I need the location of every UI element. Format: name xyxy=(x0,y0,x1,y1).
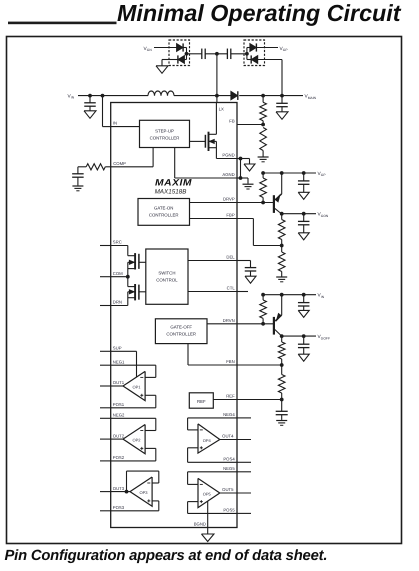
svg-text:POS3: POS3 xyxy=(113,505,125,510)
svg-text:CONTROLLER: CONTROLLER xyxy=(150,136,180,141)
wire SUP internal xyxy=(111,350,137,352)
wire PGND internal xyxy=(216,158,237,160)
wire FBN internal xyxy=(187,344,189,365)
pin DRN stub xyxy=(100,305,111,307)
wire AGND internal xyxy=(174,148,176,179)
wire BGND xyxy=(207,502,209,535)
resistor R-FBP-bottom xyxy=(281,246,283,253)
wire DRVP internal xyxy=(190,202,238,204)
svg-text:MAXIM: MAXIM xyxy=(155,177,192,187)
svg-text:BGND: BGND xyxy=(194,522,206,527)
junction VIN cap xyxy=(88,94,92,98)
junction COM xyxy=(126,275,130,279)
svg-text:IN: IN xyxy=(113,121,117,126)
junction Q1 collector xyxy=(280,212,284,216)
block gate-off controller xyxy=(155,319,207,344)
svg-text:OUT5: OUT5 xyxy=(222,487,234,492)
svg-text:OP4: OP4 xyxy=(203,438,212,443)
junction REF xyxy=(280,398,284,402)
wire POS3 hook xyxy=(111,510,159,512)
svg-text:SWITCH: SWITCH xyxy=(158,271,175,276)
pin POS2 stub xyxy=(100,460,111,462)
wire OUT1 xyxy=(111,385,123,387)
diode D2b xyxy=(178,55,185,63)
diode D3a xyxy=(247,47,250,49)
pin POS3 stub xyxy=(100,510,111,512)
resistor R-DRVP xyxy=(262,173,264,178)
wire NEG2 hook xyxy=(111,417,156,419)
pin POS5 stub xyxy=(237,512,251,514)
dashed box D3 dual diode xyxy=(244,40,265,66)
ground VMAIN cap xyxy=(276,112,288,120)
transistor N3 switch MOSFET xyxy=(127,277,129,287)
junction pump2 xyxy=(245,52,249,56)
diode D3b xyxy=(247,59,251,61)
pin OUT2 stub xyxy=(100,438,111,440)
wire VMAIN rail xyxy=(263,95,303,97)
wire OUT2 xyxy=(111,438,123,440)
junction pump LX tap xyxy=(215,52,219,56)
pin NEG2 stub xyxy=(100,417,111,419)
svg-text:OP5: OP5 xyxy=(203,491,212,496)
svg-text:OUT1: OUT1 xyxy=(113,380,125,385)
block step-up controller xyxy=(140,120,190,147)
svg-text:AGND: AGND xyxy=(222,172,234,177)
wire VGOFF node xyxy=(282,335,316,337)
svg-text:OP3: OP3 xyxy=(139,490,148,495)
svg-text:GP: GP xyxy=(321,173,327,177)
wire NEG5 hook xyxy=(188,471,237,473)
junction VGON cap xyxy=(302,212,306,216)
junction FBP xyxy=(280,244,284,248)
junction FB divider top xyxy=(261,94,265,98)
svg-text:GN: GN xyxy=(147,48,153,52)
IC U1 MAX1518B outline xyxy=(111,103,237,528)
capacitor C-pump1 xyxy=(201,49,203,60)
svg-text:CONTROL: CONTROL xyxy=(156,278,178,283)
capacitor C-VIN2 xyxy=(303,295,305,303)
svg-text:CONTROLLER: CONTROLLER xyxy=(149,212,179,217)
svg-text:GATE-ON: GATE-ON xyxy=(154,205,173,210)
svg-text:POS1: POS1 xyxy=(113,402,125,407)
ground FB divider xyxy=(258,156,269,158)
pin OUT1 stub xyxy=(100,385,111,387)
transistor N1 step-up MOSFET xyxy=(204,135,206,148)
wire CTL internal xyxy=(188,291,237,293)
wire DRN to FET xyxy=(111,305,128,307)
pin NEG5 stub xyxy=(237,471,251,473)
junction VIN cap xyxy=(302,293,306,297)
wire OP3 feedback loop xyxy=(126,471,128,492)
svg-text:LX: LX xyxy=(219,106,224,111)
wire D3b to VMAIN xyxy=(258,59,282,61)
wire FB pin xyxy=(237,124,263,126)
block gate-on controller xyxy=(138,199,190,226)
svg-text:GOFF: GOFF xyxy=(321,336,330,340)
wire PGND to AGND xyxy=(240,159,242,179)
capacitor C-COMP xyxy=(77,167,79,174)
capacitor C-REF xyxy=(281,400,283,412)
diode D2a xyxy=(177,43,184,51)
svg-text:NEG4: NEG4 xyxy=(223,412,235,417)
wire CTL stub xyxy=(237,291,248,293)
ground BGND xyxy=(201,534,214,542)
wire REF external xyxy=(237,399,282,401)
wire REF internal xyxy=(213,399,237,401)
svg-text:OUT2: OUT2 xyxy=(113,433,125,438)
svg-text:GP: GP xyxy=(283,48,289,52)
svg-text:PGND: PGND xyxy=(222,153,234,158)
wire inductor to diode xyxy=(174,95,231,97)
wire LX stub into IC xyxy=(216,96,218,103)
junction VIN resistor xyxy=(261,293,265,297)
wire VGN to pump xyxy=(154,47,177,49)
ground FBP divider xyxy=(276,276,287,278)
wire OUT3 xyxy=(111,491,130,493)
svg-text:NEG2: NEG2 xyxy=(113,413,125,418)
capacitor C-DEL xyxy=(250,261,252,268)
junction PGND xyxy=(239,157,243,161)
junction VGOFF cap xyxy=(302,334,306,338)
svg-text:FBN: FBN xyxy=(226,359,235,364)
ground COMP xyxy=(72,185,83,187)
wire COM to FETs xyxy=(111,276,128,278)
wire VIN to inductor xyxy=(78,95,148,97)
svg-text:POS5: POS5 xyxy=(223,508,235,513)
svg-text:MAX1518B: MAX1518B xyxy=(155,188,187,195)
op-amp OP3 xyxy=(130,477,152,506)
junction VGP resistor xyxy=(261,171,265,175)
junction FBN xyxy=(280,363,284,367)
svg-text:COM: COM xyxy=(113,271,123,276)
svg-text:NEG5: NEG5 xyxy=(223,466,235,471)
transistor Q1 PNP xyxy=(273,195,275,213)
wire FBP route xyxy=(237,218,253,220)
svg-text:POS2: POS2 xyxy=(113,455,125,460)
wire cap to pump2 xyxy=(231,53,247,55)
svg-text:SUP: SUP xyxy=(113,346,122,351)
resistor R-FBP-top xyxy=(281,214,283,220)
wire DRVN internal xyxy=(207,323,237,325)
svg-text:GATE-OFF: GATE-OFF xyxy=(170,325,192,330)
pin NEG4 stub xyxy=(237,417,251,419)
wire IN to block xyxy=(111,126,140,128)
wire pump1 junction xyxy=(186,48,188,60)
pin POS1 stub xyxy=(100,407,111,409)
wire POS2 hook xyxy=(111,460,156,462)
ground VIN cap xyxy=(84,111,96,119)
transistor Q2 NPN xyxy=(273,317,275,335)
junction Q1 emitter xyxy=(280,171,284,175)
ground DEL cap xyxy=(245,276,256,283)
svg-text:POS4: POS4 xyxy=(223,457,235,462)
op-amp OP4 xyxy=(198,424,220,453)
pin NEG1 stub xyxy=(100,364,111,366)
wire DRVP to base xyxy=(237,202,273,204)
capacitor C-VMAIN xyxy=(281,96,283,104)
dashed box D2 dual diode xyxy=(169,40,190,66)
wire between pump caps xyxy=(205,53,227,55)
svg-text:REF: REF xyxy=(197,399,206,404)
title rule xyxy=(8,22,117,25)
junction pump1 xyxy=(185,52,189,56)
wire SRC to FET xyxy=(111,245,128,247)
svg-text:STEP-UP: STEP-UP xyxy=(155,129,174,134)
resistor R-FBN-bottom xyxy=(281,365,283,375)
svg-text:CTL: CTL xyxy=(227,286,236,291)
junction VMAIN cap xyxy=(280,94,284,98)
capacitor C-VGP xyxy=(303,173,305,181)
wire gate step-up FET xyxy=(190,140,206,142)
junction Q2 emitter xyxy=(280,293,284,297)
wire PGND to ground xyxy=(237,158,250,160)
svg-text:NEG1: NEG1 xyxy=(113,359,125,364)
wire NEG1 hook xyxy=(111,364,156,366)
junction DRVP xyxy=(261,201,265,205)
svg-text:Pin Configuration appears at e: Pin Configuration appears at end of data… xyxy=(5,548,328,564)
svg-text:OP2: OP2 xyxy=(132,437,141,442)
svg-text:REF: REF xyxy=(226,394,235,399)
svg-text:COMP: COMP xyxy=(113,161,126,166)
ground VIN cap xyxy=(298,310,309,317)
MAXIM logo xyxy=(155,177,192,187)
resistor R-DRVN xyxy=(262,295,264,300)
block switch control xyxy=(146,249,188,304)
transistor N2 switch MOSFET xyxy=(127,246,129,256)
wire NEG4 hook xyxy=(188,417,237,419)
svg-text:FB: FB xyxy=(229,119,235,124)
svg-text:DRVP: DRVP xyxy=(223,197,235,202)
junction AGND xyxy=(239,176,243,180)
wire IN pin xyxy=(102,96,104,127)
junction OUT3 feedback xyxy=(125,490,129,494)
pin OUT4 stub xyxy=(220,439,251,441)
junction DRVN xyxy=(261,322,265,326)
resistor R2 FB bottom xyxy=(260,128,267,151)
svg-text:OP1: OP1 xyxy=(132,384,141,389)
op-amp OP2 xyxy=(123,425,145,454)
wire FBP internal xyxy=(190,218,238,220)
capacitor C-VGON xyxy=(303,214,305,222)
pin SRC stub xyxy=(100,245,111,247)
ground REF cap xyxy=(276,420,287,422)
resistor R-FBN-top xyxy=(281,336,283,342)
capacitor C-VGOFF xyxy=(303,336,305,344)
wire VGP node xyxy=(263,172,316,174)
svg-text:Minimal Operating Circuit: Minimal Operating Circuit xyxy=(117,0,402,26)
pin COM stub xyxy=(100,276,111,278)
op-amp OP5 xyxy=(198,478,220,507)
ground PGND xyxy=(244,164,255,171)
svg-text:GON: GON xyxy=(321,214,329,218)
junction FB xyxy=(261,123,265,127)
wire VIN node xyxy=(263,294,316,296)
pin OUT3 stub xyxy=(100,491,111,493)
wire DEL stub xyxy=(237,260,251,262)
ground VGOFF cap xyxy=(298,354,309,361)
svg-text:DRN: DRN xyxy=(113,300,122,305)
svg-text:CONTROLLER: CONTROLLER xyxy=(166,332,196,337)
wire POS4 hook xyxy=(188,461,237,463)
wire D2b to ground xyxy=(162,59,178,61)
wire pump2 junction xyxy=(246,48,248,60)
svg-text:FBP: FBP xyxy=(226,213,234,218)
capacitor C-IN xyxy=(89,96,91,103)
ground VGP cap xyxy=(298,192,309,199)
wire pump node xyxy=(187,53,202,55)
wire D3a to VGP xyxy=(256,47,278,49)
wire POS1 hook xyxy=(111,407,156,409)
svg-text:DRVN: DRVN xyxy=(223,318,235,323)
capacitor C-pump2 xyxy=(226,49,228,60)
op-amp OP1 xyxy=(123,371,145,400)
junction Q2 collector xyxy=(280,334,284,338)
pin POS4 stub xyxy=(237,461,251,463)
resistor R-COMP xyxy=(105,166,110,168)
block REF xyxy=(189,393,213,408)
wire DEL internal xyxy=(188,260,237,262)
junction VGP cap xyxy=(302,171,306,175)
pin OUT5 stub xyxy=(220,492,251,494)
junction IN drop xyxy=(101,94,105,98)
svg-text:OUT4: OUT4 xyxy=(222,434,234,439)
resistor R1 FB top xyxy=(262,96,264,103)
diode D1 rectifier xyxy=(231,91,238,100)
ground pump1 xyxy=(156,66,168,74)
wire DRVN to base xyxy=(237,323,273,325)
ground AGND xyxy=(243,183,254,185)
svg-text:DEL: DEL xyxy=(226,255,235,260)
wire POS5 hook xyxy=(188,512,237,514)
inductor L1 xyxy=(148,91,155,96)
wire pump node to LX xyxy=(216,54,218,96)
svg-text:SRC: SRC xyxy=(113,240,122,245)
wire AGND to ground xyxy=(237,177,248,179)
ground VGON cap xyxy=(298,233,309,240)
svg-text:OUT3: OUT3 xyxy=(113,486,125,491)
wire COMP internal xyxy=(111,166,153,168)
pin SUP stub xyxy=(100,350,111,352)
junction LX node xyxy=(215,94,219,98)
wire VGON node xyxy=(282,213,316,215)
svg-text:MAIN: MAIN xyxy=(308,96,317,100)
wire FBN external xyxy=(237,364,282,366)
